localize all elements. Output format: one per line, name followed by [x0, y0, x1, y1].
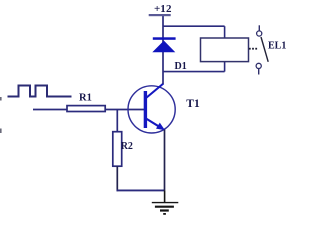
- wire input to R1: [33, 109, 68, 111]
- wire bottom rail: [117, 189, 165, 191]
- relay contact top terminal: [257, 31, 262, 36]
- wire relay loop top: [163, 25, 225, 27]
- transistor T1: [128, 84, 200, 134]
- svg-text:EL1: EL1: [268, 40, 286, 51]
- svg-text:2: 2: [166, 3, 172, 15]
- square wave input symbol: [8, 86, 72, 97]
- wire relay loop right: [224, 26, 226, 71]
- ground: [152, 190, 179, 214]
- svg-text:R1: R1: [79, 93, 92, 104]
- edge artifact marks: [0, 97, 2, 101]
- svg-text:+1: +1: [154, 3, 166, 15]
- relay armature: [261, 37, 268, 62]
- wire R1 to base node: [105, 109, 144, 111]
- relay coil EL1 box: [201, 38, 249, 62]
- wire collector up through diode to power bar: [162, 16, 164, 85]
- relay contact bottom terminal: [256, 63, 261, 68]
- svg-text:R2: R2: [121, 141, 133, 152]
- resistor R2: [113, 132, 133, 167]
- relay contact top pin: [258, 25, 260, 31]
- wire R2 to bottom rail: [116, 166, 118, 191]
- wire emitter down to bottom rail: [164, 130, 166, 191]
- svg-text:T1: T1: [186, 98, 200, 110]
- wire relay loop bottom: [163, 71, 225, 73]
- resistor R1: [67, 93, 105, 112]
- relay contact bottom pin: [258, 69, 260, 75]
- diode D1: [152, 37, 186, 72]
- relay actuation dotted link: [249, 48, 257, 50]
- svg-text:D1: D1: [175, 61, 187, 72]
- power +12 terminal: [149, 3, 172, 16]
- node base junction: wire down to R2: [116, 110, 118, 133]
